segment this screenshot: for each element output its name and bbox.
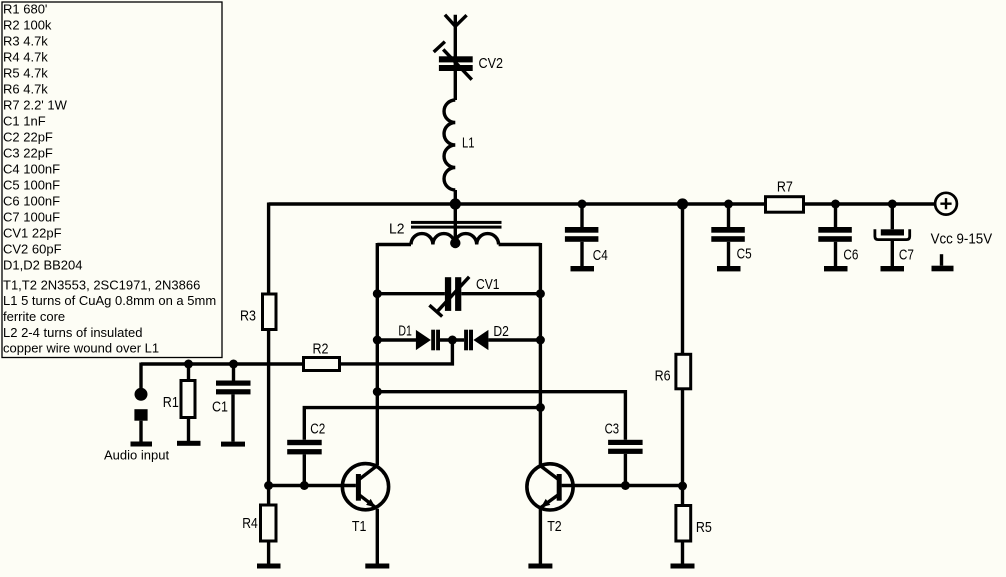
node D2 line right [536,336,545,345]
wire C4 bottom stem [580,242,583,266]
resistor R5 [676,506,691,542]
node bus/C6 [831,200,840,209]
svg-text:CV2 60pF: CV2 60pF [3,242,62,257]
svg-text:R1 680': R1 680' [3,2,47,17]
antenna [445,15,467,100]
svg-text:Audio input: Audio input [104,448,169,463]
wire D2 anode [488,338,540,341]
svg-text:CV1 22pF: CV1 22pF [3,226,62,241]
svg-text:T1: T1 [352,518,367,535]
resistor R6 [676,354,691,389]
svg-text:R1: R1 [163,394,179,411]
wire T2 emitter [539,509,542,564]
node C3 base line [621,481,630,490]
node R1 top [184,360,193,369]
svg-text:R4 4.7k: R4 4.7k [3,50,48,65]
ground C5 [717,266,741,271]
svg-text:L1 5 turns of CuAg 0.8mm on a: L1 5 turns of CuAg 0.8mm on a 5mm [3,293,216,308]
svg-text:L1: L1 [462,135,475,152]
capacitor C4 [565,227,599,242]
wire C7 top stem [891,204,894,229]
svg-text:R6: R6 [655,368,671,385]
transistor T2 [527,464,573,510]
node line B right [536,403,545,412]
ground C4 [571,266,595,271]
svg-text:CV1: CV1 [476,276,500,293]
svg-text:R3: R3 [240,308,256,325]
ground T2 [528,564,552,569]
wire R6 to R5 [681,389,684,506]
capacitor CV1 [429,277,469,317]
svg-text:Vcc 9-15V: Vcc 9-15V [931,230,993,247]
wire Vcc bus [269,202,935,205]
parts list box [2,2,222,358]
wire C2 bottom stem [303,454,306,485]
wire R6 column top [681,204,684,354]
ground Vcc pin [932,254,954,271]
wire R4 bottom stem [267,543,270,564]
svg-text:C7 100uF: C7 100uF [3,210,60,225]
wire C7 bottom stem [891,240,894,266]
node L2 tap [450,238,460,248]
svg-text:D1,D2 BB204: D1,D2 BB204 [3,258,83,273]
svg-text:CV2: CV2 [479,55,504,72]
svg-text:C5: C5 [737,246,752,263]
capacitor C3 [608,440,643,454]
node C1 top [229,360,238,369]
ground R4 [257,564,281,569]
connector audio input [134,388,147,442]
wire C3 bottom stem [624,454,627,486]
wire CV1 right [461,292,540,295]
svg-text:C1 1nF: C1 1nF [3,114,46,129]
node line A left [373,387,382,396]
node varicap center [448,336,457,345]
wire left vertical (tank left / T1 collector) [376,243,379,465]
wire R1 top stem [187,364,190,379]
node T2 base / R6-R5 [678,482,687,491]
svg-text:R5: R5 [696,519,712,536]
ground R1 [177,441,201,446]
svg-text:D2: D2 [493,323,509,340]
wire T1 base line [269,484,356,487]
wire audio corner down [139,363,142,389]
wire C1 top stem [232,364,235,381]
supply terminal Vcc [935,193,957,215]
resistor R2 [304,358,340,371]
svg-text:R5 4.7k: R5 4.7k [3,66,48,81]
resistor R7 [766,197,804,213]
svg-text:T2: T2 [547,518,562,535]
wire cross-coupling line A (T1 collector to C3) [377,392,625,440]
node D1 line left [373,336,382,345]
wire R5 bottom stem [681,541,684,564]
capacitor C1 [216,381,251,395]
capacitor C6 [818,227,852,242]
svg-text:R3 4.7k: R3 4.7k [3,34,48,49]
node C2 base line [300,481,309,490]
transistor T1 [342,464,388,510]
wire varicap center [440,338,464,341]
svg-text:C1: C1 [212,399,228,416]
diode D2 [464,330,488,351]
parts list text [3,2,216,356]
svg-text:C6 100nF: C6 100nF [3,194,60,209]
svg-text:C7: C7 [899,247,914,264]
capacitor C2 [287,440,322,455]
ground C1 [221,442,245,447]
svg-text:R2 100k: R2 100k [3,18,52,33]
svg-text:C5 100nF: C5 100nF [3,178,60,193]
wire L2 center tap [454,204,457,243]
wire bus left corner down to R3 [267,203,270,293]
capacitor C7 (electrolytic) [875,229,910,239]
svg-text:copper wire wound over L1: copper wire wound over L1 [3,341,159,356]
resistor R3 [263,294,277,330]
wire R3 to base junction [267,331,270,486]
svg-text:C4: C4 [593,247,608,264]
wire varicap tap jog [341,340,452,364]
svg-text:R6 4.7k: R6 4.7k [3,82,48,97]
node T1 base junction [264,481,273,490]
capacitor CV2 [434,42,473,80]
svg-text:R7 2.2' 1W: R7 2.2' 1W [3,98,68,113]
wire C4 top stem [580,204,583,227]
transformer L2 core [411,221,502,229]
svg-text:C2 22pF: C2 22pF [3,130,53,145]
svg-text:C2: C2 [310,421,325,438]
wire C6 bottom stem [834,242,837,266]
inductor L2 winding [411,234,499,245]
resistor R4 [261,505,277,541]
svg-text:D1: D1 [398,323,412,340]
ground T1 [365,564,389,569]
wire R1 bottom stem [187,419,190,441]
wire C1 bottom stem [231,394,234,441]
node CV1 left [373,289,382,298]
svg-text:T1,T2 2N3553, 2SC1971, 2N3866: T1,T2 2N3553, 2SC1971, 2N3866 [3,277,200,292]
wire audio line [141,362,302,365]
node bus/C5 [724,200,733,209]
svg-text:ferrite core: ferrite core [3,309,65,324]
wire L2 right lead [499,243,541,246]
ground C7 [881,266,905,271]
node bus/R6 [677,198,688,209]
wire L2 left lead [377,243,411,246]
ground R5 [671,564,695,569]
svg-text:C6: C6 [843,247,858,264]
wire T2 base line [562,484,683,487]
ground audio [131,442,153,447]
node bus/C7 [888,200,897,209]
wire cross-coupling line B (C2 to T2 collector) [304,408,540,440]
wire D1 anode [377,338,416,341]
node bus/C4 [578,200,587,209]
wire R4 stem from base junction [267,486,270,504]
wire right vertical (tank right / T2 collector) [539,243,542,465]
ground C6 [824,266,848,271]
svg-text:C4 100nF: C4 100nF [3,162,60,177]
svg-text:R4: R4 [242,515,258,532]
capacitor C5 [711,227,745,242]
inductor L1 [444,100,455,190]
wire C5 bottom stem [727,242,730,266]
node bus/L1 [450,198,461,209]
wire T1 emitter [376,509,379,564]
wire C5 top stem [727,204,730,227]
svg-text:C3: C3 [605,421,620,438]
node CV1 right [536,289,545,298]
wire CV1 left [377,292,445,295]
wire C6 top stem [834,204,837,227]
svg-text:C3 22pF: C3 22pF [3,146,53,161]
svg-text:L2 2-4 turns of insulated: L2 2-4 turns of insulated [3,325,142,340]
wire L1 to bus [454,190,457,204]
resistor R1 [181,381,195,418]
diode D1 [416,330,440,351]
svg-text:R7: R7 [777,178,793,195]
svg-text:L2: L2 [389,221,405,238]
svg-text:R2: R2 [313,341,329,358]
